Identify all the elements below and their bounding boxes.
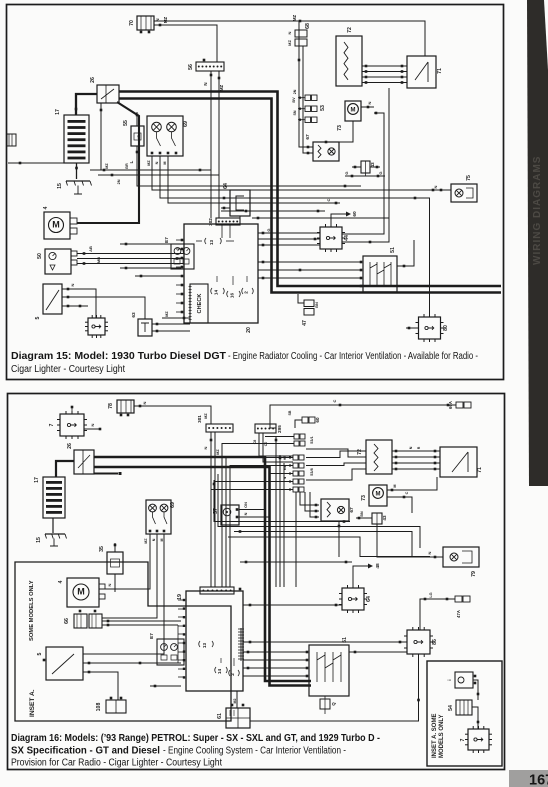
wires stack to 67: [300, 492, 319, 518]
svg-text:44: 44: [344, 235, 350, 241]
fuse 35: [99, 543, 123, 592]
connector 60A: [448, 401, 471, 409]
svg-text:53/1: 53/1: [310, 436, 314, 443]
svg-text:N: N: [70, 283, 75, 286]
wire 56 N down: [203, 71, 212, 218]
svg-text:M: M: [351, 108, 356, 114]
svg-text:N: N: [142, 401, 147, 404]
brackets 14b 2b: [215, 658, 240, 676]
svg-text:INSET A. SOME: INSET A. SOME: [432, 714, 438, 758]
wire 78 to 301: [134, 401, 211, 424]
lamp 79: [443, 547, 479, 577]
check connector: [189, 284, 208, 323]
connector 53: [293, 89, 326, 122]
svg-text:80: 80: [443, 325, 449, 331]
svg-text:43: 43: [382, 515, 387, 521]
svg-text:Diagram 15: Model: 1930 Turbo: Diagram 15: Model: 1930 Turbo Diesel DGT: [11, 351, 226, 362]
svg-text:N: N: [433, 185, 438, 188]
wire cluster bottom to 63: [152, 311, 190, 333]
svg-text:R: R: [417, 446, 421, 449]
bracket 13b: [199, 641, 214, 648]
brackets 14 16 2: [211, 276, 254, 298]
svg-text:i: i: [447, 679, 452, 680]
fan switch 71: [407, 56, 443, 88]
connector 301: [197, 415, 233, 432]
chip 86: [404, 627, 438, 657]
wire 66 right: [102, 620, 181, 627]
svg-text:MODELS ONLY: MODELS ONLY: [439, 715, 445, 758]
svg-text:60: 60: [315, 417, 320, 423]
svg-text:MZ: MZ: [287, 40, 292, 46]
chip 7: [49, 406, 101, 439]
resistor pack 17b: [34, 477, 65, 533]
wires 73: [320, 101, 374, 143]
connector 63: [131, 312, 152, 336]
wires 50 to cluster: [77, 246, 184, 265]
svg-text:M: M: [52, 220, 60, 230]
svg-text:M: M: [77, 587, 85, 597]
wires 72b to 71b: [392, 446, 440, 470]
wires sensor 5: [62, 283, 145, 319]
svg-text:60: 60: [352, 211, 358, 217]
svg-text:48: 48: [375, 563, 381, 569]
arrow 60: [331, 211, 358, 227]
connector 15: [57, 181, 92, 194]
thick stub 26 right: [94, 472, 122, 475]
svg-text:301: 301: [197, 415, 202, 423]
chip 64b: [339, 585, 372, 613]
thick bus upper: [76, 92, 501, 287]
svg-text:86: 86: [432, 639, 438, 645]
instrument cluster 20: [176, 224, 258, 333]
svg-text:73: 73: [361, 495, 367, 501]
svg-text:WIRING DIAGRAMS: WIRING DIAGRAMS: [532, 156, 543, 265]
svg-text:56: 56: [188, 64, 194, 70]
svg-text:55: 55: [123, 120, 129, 126]
connector 61: [217, 699, 250, 729]
wires stack to 72: [306, 449, 366, 480]
svg-text:5: 5: [35, 316, 41, 319]
svg-text:AB: AB: [88, 246, 93, 252]
fuse 43b: [356, 511, 387, 524]
svg-text:L: L: [129, 160, 134, 163]
svg-text:16: 16: [230, 293, 235, 299]
wires 68 down to lamp 67: [292, 21, 313, 154]
svg-text:47: 47: [302, 320, 308, 326]
svg-text:108: 108: [96, 703, 102, 712]
svg-text:2N: 2N: [293, 89, 297, 94]
svg-text:- Engine Radiator Cooling - Ca: - Engine Radiator Cooling - Car Interior…: [228, 351, 478, 362]
sensor 5: [35, 284, 62, 319]
wire 19 left extra: [150, 685, 237, 708]
svg-text:Diagram 16: Models: (’93 Range: Diagram 16: Models: (’93 Range) PETROL: …: [11, 733, 380, 744]
svg-text:E7: E7: [149, 633, 154, 639]
wires 57 to bus: [239, 502, 270, 517]
connector 108: [96, 697, 126, 713]
svg-text:67: 67: [349, 507, 355, 513]
svg-text:MZ: MZ: [144, 538, 148, 544]
svg-text:15: 15: [57, 183, 63, 189]
svg-text:SB: SB: [288, 410, 292, 415]
wire 51b right: [349, 651, 407, 654]
svg-text:53: 53: [320, 105, 326, 111]
wires cluster to 44: [258, 228, 320, 246]
svg-text:51: 51: [390, 247, 396, 253]
gauge E7: [164, 237, 194, 269]
svg-text:4: 4: [58, 580, 64, 583]
svg-text:7: 7: [460, 738, 466, 741]
corridor wire D: [228, 537, 430, 557]
motor 73: [337, 101, 361, 131]
wire 69 pin2 to module 80: [160, 156, 430, 317]
svg-text:64: 64: [366, 596, 372, 602]
svg-text:72: 72: [357, 449, 363, 455]
edge connector left: [7, 134, 16, 146]
corridor wire E: [240, 561, 352, 564]
svg-text:N: N: [367, 101, 372, 104]
svg-text:N: N: [152, 538, 156, 541]
svg-text:47A: 47A: [456, 610, 461, 618]
svg-text:4: 4: [43, 206, 49, 209]
svg-text:13: 13: [209, 240, 214, 246]
wire 55 bottom L: [129, 146, 361, 187]
wire 44 to switch 71: [342, 88, 389, 243]
svg-text:70: 70: [129, 20, 135, 26]
svg-text:64: 64: [223, 183, 229, 189]
connector stack 53/1: [222, 434, 314, 587]
wire 60A long: [270, 399, 456, 428]
thick bus lower: [119, 99, 501, 293]
inset connector 54: [448, 700, 472, 715]
corridor wire C: [234, 530, 412, 557]
connector 47: [298, 294, 319, 326]
motor 4b: [58, 578, 105, 607]
svg-text:50: 50: [37, 253, 43, 259]
wires stack left: [211, 458, 293, 588]
svg-text:N: N: [203, 446, 208, 449]
svg-text:M: M: [160, 539, 164, 542]
connector 68: [287, 23, 311, 46]
svg-text:68: 68: [305, 23, 311, 29]
svg-text:N: N: [155, 161, 159, 164]
inset connector i: [447, 672, 476, 688]
svg-text:N: N: [427, 551, 432, 554]
wires 64 left: [221, 197, 240, 218]
wires 301 down to cluster 19: [203, 432, 220, 587]
lamp resistor 67: [305, 134, 339, 161]
svg-text:M: M: [163, 161, 167, 164]
svg-text:N: N: [287, 31, 292, 34]
svg-text:51: 51: [342, 637, 348, 643]
svg-text:69: 69: [183, 121, 189, 127]
svg-text:BV: BV: [292, 97, 296, 103]
svg-text:4B: 4B: [137, 134, 141, 139]
wire 70 to 56: [154, 24, 217, 62]
svg-text:MB: MB: [96, 257, 101, 263]
svg-text:MZ: MZ: [292, 15, 297, 22]
svg-text:N: N: [107, 583, 112, 586]
svg-text:BN: BN: [360, 511, 364, 517]
diagram 16 frame: [8, 394, 505, 770]
chip 44: [317, 224, 350, 252]
svg-text:MZ: MZ: [163, 17, 168, 24]
svg-text:MZ: MZ: [204, 413, 208, 419]
gauge E7b: [149, 633, 184, 665]
wire left border to 17: [8, 162, 76, 165]
wire 19 to 64b: [243, 604, 342, 607]
connector 64: [223, 183, 250, 216]
corridor wire A: [213, 480, 350, 523]
wires cluster left extra: [120, 243, 181, 278]
svg-text:M2: M2: [233, 699, 237, 704]
connector 47A: [455, 596, 470, 618]
wire 26 down to bundle: [100, 103, 103, 170]
diagram 16 caption: [11, 733, 380, 769]
wire 69b to sensor 5b: [83, 534, 164, 654]
svg-text:C: C: [405, 491, 409, 494]
svg-text:71: 71: [477, 467, 483, 473]
connector stack 53/8: [283, 455, 314, 492]
svg-text:73: 73: [337, 125, 343, 131]
fuse 43: [352, 161, 380, 173]
wires cluster to 51: [258, 261, 361, 280]
instrument cluster 19: [177, 591, 243, 691]
wires 19 right to relay 51b: [243, 651, 307, 676]
wire 56 MZ down: [218, 71, 224, 218]
wire 69 pin1 to lamp 75: [152, 156, 451, 191]
wires 295 down: [253, 433, 293, 462]
connector 78: [108, 400, 134, 416]
black edge tab: [527, 0, 548, 486]
svg-text:63: 63: [131, 312, 137, 318]
motor 4: [43, 206, 77, 239]
wire 19 to 86: [243, 641, 407, 644]
resistor pack 17: [55, 108, 89, 163]
svg-text:N: N: [203, 82, 208, 85]
svg-text:5: 5: [37, 652, 43, 655]
svg-text:72: 72: [347, 27, 353, 33]
svg-text:LG: LG: [429, 592, 433, 597]
svg-text:MZ: MZ: [219, 85, 224, 92]
svg-text:M: M: [393, 484, 397, 487]
svg-text:295: 295: [277, 425, 282, 433]
relay 51: [360, 247, 397, 292]
wire row 218: [252, 217, 389, 220]
thick bus 16 upper: [56, 457, 311, 681]
relay 51b: [306, 637, 349, 696]
svg-text:69: 69: [170, 502, 176, 508]
svg-text:SN: SN: [293, 110, 297, 115]
svg-text:79: 79: [471, 571, 477, 577]
svg-text:75: 75: [466, 175, 472, 181]
connector 295: [255, 424, 282, 433]
svg-text:C: C: [332, 399, 337, 402]
wire G under 43: [344, 171, 385, 177]
module 1: [85, 315, 108, 338]
corridor wire B: [218, 474, 420, 548]
blower resistor 72: [336, 27, 362, 86]
connector 302: [208, 218, 240, 226]
wire 67b down: [338, 521, 341, 557]
connector 38: [200, 587, 241, 594]
svg-text:BN: BN: [315, 302, 319, 308]
svg-text:E7: E7: [164, 237, 169, 243]
chip 80: [406, 314, 449, 342]
fuse 43c: [320, 696, 336, 714]
svg-text:CHECK: CHECK: [197, 294, 203, 314]
svg-text:Cigar Lighter - Courtesy Light: Cigar Lighter - Courtesy Light: [11, 364, 125, 375]
svg-text:SX Specification - GT and Dies: SX Specification - GT and Diesel: [11, 746, 160, 757]
diagram 15 frame: [7, 5, 504, 380]
fan switch 71b: [440, 447, 483, 477]
wire 43b to lamp 79: [377, 524, 443, 558]
sensor 5b: [37, 647, 83, 680]
svg-text:15: 15: [36, 537, 42, 543]
svg-text:SOME MODELS ONLY: SOME MODELS ONLY: [29, 580, 35, 641]
thin verticals to cluster 19 top: [275, 437, 284, 587]
fuse 55: [123, 120, 144, 146]
bracket 13: [196, 238, 234, 245]
svg-text:26: 26: [90, 77, 96, 83]
sender 57: [213, 505, 239, 525]
svg-text:66: 66: [64, 618, 70, 624]
svg-text:78: 78: [108, 403, 114, 409]
relay 26: [90, 77, 119, 103]
svg-text:M: M: [376, 492, 381, 498]
wires 72 to 71: [362, 65, 407, 84]
svg-text:7: 7: [49, 423, 55, 426]
connectors 66: [64, 610, 102, 628]
arrow 48: [353, 563, 381, 588]
wires 5b right: [83, 625, 181, 700]
inset A box: [427, 661, 502, 766]
zipper connector 19: [238, 628, 244, 661]
svg-text:Provision for Car Radio - Ciga: Provision for Car Radio - Cigar Lighter …: [11, 758, 222, 769]
svg-text:2N: 2N: [117, 179, 121, 184]
svg-text:- Engine Cooling System - Car: - Engine Cooling System - Car Interior V…: [163, 746, 346, 757]
svg-text:MZ: MZ: [147, 160, 151, 166]
thick bus 16 lower: [94, 467, 311, 686]
inset left box: [15, 562, 231, 721]
svg-text:54: 54: [448, 705, 454, 711]
svg-text:N: N: [409, 446, 413, 449]
svg-text:19: 19: [177, 594, 183, 600]
page number band: [509, 770, 548, 787]
svg-text:67: 67: [305, 134, 311, 140]
diagram 15 caption: [11, 351, 478, 375]
svg-text:167: 167: [529, 773, 548, 787]
svg-text:MZ: MZ: [105, 163, 109, 169]
wire row 211: [221, 210, 325, 213]
svg-text:N: N: [90, 423, 95, 426]
blower resistor 72b: [357, 440, 392, 474]
gauge unit 50: [37, 249, 77, 274]
svg-text:INSET A.: INSET A.: [29, 689, 36, 717]
svg-text:G: G: [344, 171, 349, 174]
wire 51 right: [397, 240, 414, 267]
wire 69 pin3: [168, 156, 340, 204]
switch unit 69: [147, 116, 189, 166]
connector 60: [288, 410, 320, 428]
svg-text:71: 71: [437, 68, 443, 74]
svg-text:20: 20: [246, 327, 252, 333]
svg-text:26: 26: [67, 443, 73, 449]
inset chip 7b: [460, 726, 492, 753]
svg-text:14: 14: [214, 290, 219, 296]
lamp 75: [451, 175, 477, 202]
wire 47A to chip 86: [420, 592, 455, 630]
svg-text:G: G: [266, 228, 271, 231]
inset wires: [472, 680, 479, 729]
svg-text:G: G: [378, 171, 383, 174]
svg-text:14: 14: [217, 669, 222, 675]
svg-text:BR: BR: [125, 163, 129, 169]
wires 73b: [387, 477, 437, 513]
wire 86 to 61: [250, 654, 420, 721]
motor 73b: [361, 485, 387, 506]
lamp resistor 67b: [321, 499, 355, 521]
wire 44 to motor 73: [342, 112, 384, 234]
switch unit 69b: [144, 500, 176, 544]
svg-text:53/8: 53/8: [310, 468, 314, 475]
svg-text:17: 17: [55, 109, 61, 115]
wire 55 top: [136, 112, 139, 126]
svg-text:ON: ON: [244, 502, 248, 508]
svg-text:C: C: [326, 198, 331, 201]
wire stack down to 19: [295, 492, 297, 587]
wire 70 to 71: [154, 15, 425, 56]
svg-text:61: 61: [217, 713, 223, 719]
connector 56: [188, 59, 224, 71]
svg-text:MZ: MZ: [165, 311, 169, 317]
wire bundle 15 area: [90, 163, 219, 185]
svg-text:35: 35: [99, 546, 105, 552]
svg-text:MZ: MZ: [216, 449, 220, 455]
svg-text:13: 13: [202, 643, 207, 649]
wire 17 to 15: [75, 163, 78, 179]
svg-text:17: 17: [34, 477, 40, 483]
thick wire 26 to motor 4: [77, 102, 139, 223]
svg-text:2: 2: [244, 291, 249, 294]
wire 69b to motor 4b: [99, 534, 150, 589]
relay 26: [67, 443, 94, 474]
connector 15b: [36, 534, 67, 546]
wire 69b to 66: [102, 534, 157, 618]
connector 70: [129, 16, 168, 33]
svg-text:N: N: [244, 512, 248, 515]
